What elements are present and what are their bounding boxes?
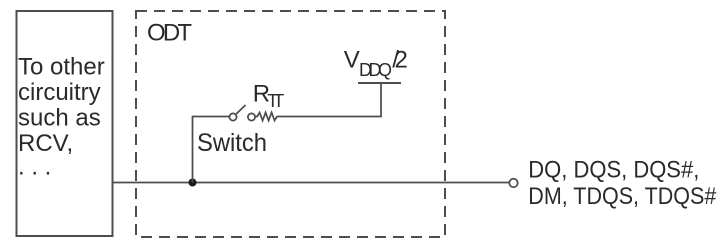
svg-text:ODT: ODT (147, 20, 192, 47)
wire: junction up to switch (193, 117, 230, 183)
svg-text:TT: TT (267, 91, 284, 111)
block: other-circuitry box (17, 11, 113, 236)
svg-text:. . .: . . . (18, 154, 51, 181)
svg-text:V: V (344, 47, 360, 74)
svg-text:/2: /2 (392, 47, 408, 74)
svg-text:DM, TDQS, TDQS#: DM, TDQS, TDQS# (528, 183, 717, 210)
svg-text:Switch: Switch (197, 129, 267, 157)
svg-text:To other: To other (18, 54, 105, 81)
ODT dashed boundary (136, 11, 445, 237)
switch S1 (229, 105, 255, 121)
label: To other circuitry such as RCV, ... (18, 54, 105, 181)
wire: main bus (113, 182, 510, 184)
node: junction dot (189, 179, 197, 187)
svg-text:DDQ: DDQ (359, 60, 392, 80)
resistor RTT (255, 113, 278, 121)
svg-text:such as: such as (18, 105, 101, 132)
supply rail VDDQ/2 bar (358, 82, 401, 84)
wire: resistor to VDDQ/2 supply (278, 84, 381, 117)
svg-text:circuitry: circuitry (18, 79, 101, 106)
terminal: DQ pad (open circle) (509, 179, 517, 187)
svg-text:DQ, DQS, DQS#,: DQ, DQS, DQS#, (528, 157, 699, 184)
